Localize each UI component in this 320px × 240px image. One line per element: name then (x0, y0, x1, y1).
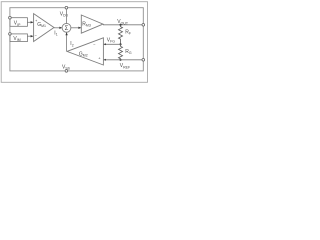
VOUT pin circle (142, 24, 145, 27)
junction RG bottom / VREF (119, 59, 121, 61)
VSS pin circle on bottom edge (65, 70, 68, 73)
wire I2: GM2 apex up to summing node (66, 32, 68, 51)
wire VDD to summing node (65, 9, 67, 24)
wire VIM box to GM1 - input (27, 35, 33, 37)
wire VIP box to GM1 + input (27, 21, 33, 23)
wire summing node to RM3 (71, 27, 81, 29)
svg-text:Σ: Σ (65, 26, 69, 32)
resistor RF (119, 25, 123, 45)
op-amp RM3 (output stage) (81, 15, 103, 33)
pin circle VIP (9, 16, 12, 19)
wire VFG: junction to GM2 - input (104, 43, 121, 45)
wire VOUT: RM3 output to right edge (103, 24, 143, 26)
IC boundary box (10, 8, 143, 71)
summing node (62, 23, 71, 32)
arrowhead into GM2 + input (104, 59, 106, 61)
op-amp GM1 (input transconductance) (34, 14, 54, 42)
wire I1: GM1 output to summing node (54, 27, 62, 29)
arrowhead into RM3 (78, 27, 81, 29)
arrowhead into GM2 - input (104, 43, 106, 45)
VREF pin circle (142, 59, 145, 62)
junction VFG node (119, 43, 121, 45)
outer frame (1, 2, 147, 83)
arrowhead I1 into summing node (59, 27, 62, 29)
pin circle VIM (9, 33, 12, 36)
wire GM2 + input from VREF junction (104, 59, 121, 61)
input pin box VIP (10, 18, 28, 27)
op-amp GM2 (feedback transconductance, points left) (67, 38, 103, 65)
arrowhead into + input (31, 21, 34, 23)
arrowhead I2 up into summing node (65, 32, 67, 35)
VDD pin circle on top edge (65, 6, 68, 9)
arrowhead into - input (31, 35, 34, 37)
junction VOUT / RF (119, 24, 121, 26)
wire VREF: junction to right edge (121, 59, 144, 61)
input pin box VIM (10, 34, 28, 42)
resistor RG (119, 44, 123, 60)
